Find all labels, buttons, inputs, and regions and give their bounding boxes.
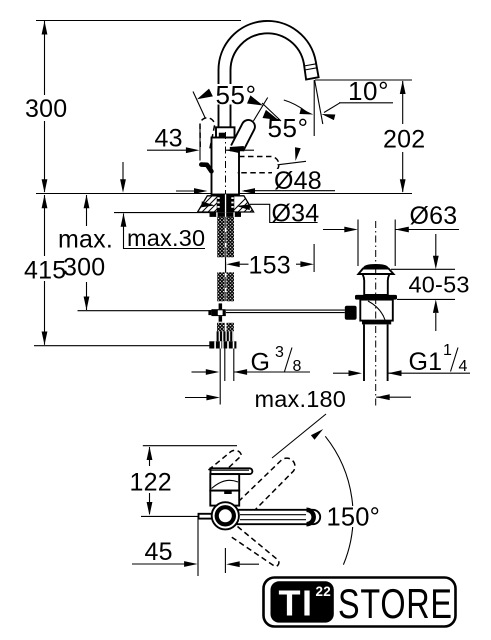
collar — [216, 127, 235, 137]
threaded shank upper section — [217, 217, 225, 257]
pop-up rod (double line to drain) — [226, 309, 345, 311]
dashed spout swung up-right — [239, 458, 295, 514]
body inner line — [233, 138, 235, 147]
swivel circle (top view) — [212, 502, 239, 529]
lever blade (top view) — [211, 468, 253, 474]
svg-text:Ø63: Ø63 — [410, 202, 458, 230]
cartridge housing (top view) — [210, 474, 239, 491]
escutcheon left (hatched) — [194, 196, 230, 214]
faucet centerline — [225, 132, 227, 194]
drain upper body — [363, 274, 390, 295]
shank centerline (gray, in strip gap) — [225, 217, 227, 301]
svg-text:40-53: 40-53 — [409, 272, 470, 298]
svg-text:10°: 10° — [348, 76, 389, 106]
svg-text:43: 43 — [155, 125, 183, 153]
handle base (black) — [230, 146, 244, 151]
svg-text:3: 3 — [275, 344, 284, 361]
svg-text:122: 122 — [130, 469, 172, 497]
spout outlet level line — [315, 79, 412, 81]
svg-text:150°: 150° — [327, 504, 381, 532]
aerator band lines — [304, 64, 316, 66]
svg-text:300: 300 — [25, 95, 67, 123]
svg-text:max.180: max.180 — [255, 386, 347, 412]
svg-text:415: 415 — [24, 256, 66, 284]
svg-text:1: 1 — [443, 342, 452, 359]
svg-text:22: 22 — [316, 584, 332, 599]
outlet axis vertical line — [313, 80, 315, 136]
122 bottom reference line — [141, 515, 199, 517]
dashed spout swung down-right — [230, 527, 279, 567]
flange — [358, 269, 393, 275]
hose tails — [219, 349, 221, 405]
svg-text:TI: TI — [279, 583, 314, 624]
pop-up rod (top view, left) — [199, 514, 213, 519]
body — [212, 138, 240, 195]
svg-text:max.: max. — [58, 226, 113, 254]
counter underside line — [114, 212, 210, 214]
svg-text:G1: G1 — [409, 348, 443, 376]
svg-text:300: 300 — [63, 254, 105, 282]
cross fitting — [219, 303, 223, 309]
plug top (black) — [363, 264, 389, 269]
122 top reference line — [143, 445, 237, 447]
collar black step — [219, 133, 226, 138]
43 extension line — [199, 126, 201, 161]
dashed handle raised (top view) — [209, 450, 242, 474]
drain lower body — [360, 300, 393, 321]
outlet 10deg tilted line — [315, 80, 323, 124]
150deg arc — [325, 436, 353, 564]
svg-text:max.30: max.30 — [127, 225, 205, 251]
spout (riser + hook arc + outlet tip) — [218, 21, 318, 131]
svg-text:45: 45 — [145, 538, 173, 566]
hose-connection level line — [78, 310, 212, 312]
lever nub (left) — [201, 165, 211, 172]
dimension 45 — [197, 517, 199, 576]
dimension 122 — [149, 447, 151, 466]
svg-text:STORE: STORE — [338, 580, 453, 627]
svg-text:Ø48: Ø48 — [274, 167, 322, 195]
centerline redraw over body — [225, 132, 227, 194]
ball joint arc — [368, 301, 385, 320]
tailpipe — [363, 324, 365, 381]
handle dashed (horizontal position) — [238, 156, 279, 172]
escutcheon right (hatched) — [230, 196, 266, 214]
mounting ring (black) — [355, 295, 397, 300]
counter top line — [36, 193, 412, 195]
lower ring — [362, 321, 391, 325]
top reference line (spout top) — [36, 20, 241, 22]
svg-text:55°: 55° — [216, 80, 257, 110]
handle dashed (up-left position) — [200, 118, 215, 149]
threaded shank lower section — [217, 272, 225, 301]
handle solid (up-right position) — [231, 120, 255, 151]
150deg reference line — [272, 414, 326, 458]
hose connector stack — [217, 323, 225, 332]
drain centerline — [375, 221, 377, 262]
side knob (rod connection) — [345, 306, 357, 320]
svg-text:8: 8 — [293, 358, 302, 375]
svg-text:Ø34: Ø34 — [272, 200, 320, 228]
svg-text:55°: 55° — [268, 113, 309, 143]
svg-text:4: 4 — [459, 358, 468, 375]
drain centerline lower — [375, 268, 377, 406]
svg-text:202: 202 — [383, 126, 425, 154]
centerline in break — [225, 257, 227, 272]
spout (top view) — [237, 510, 320, 524]
locknut — [210, 212, 242, 217]
svg-text:G: G — [251, 349, 271, 377]
body block (top view) — [210, 491, 239, 506]
threaded shank through counter (black) — [217, 194, 233, 212]
svg-text:153: 153 — [249, 252, 291, 280]
hose end level line — [34, 345, 217, 347]
